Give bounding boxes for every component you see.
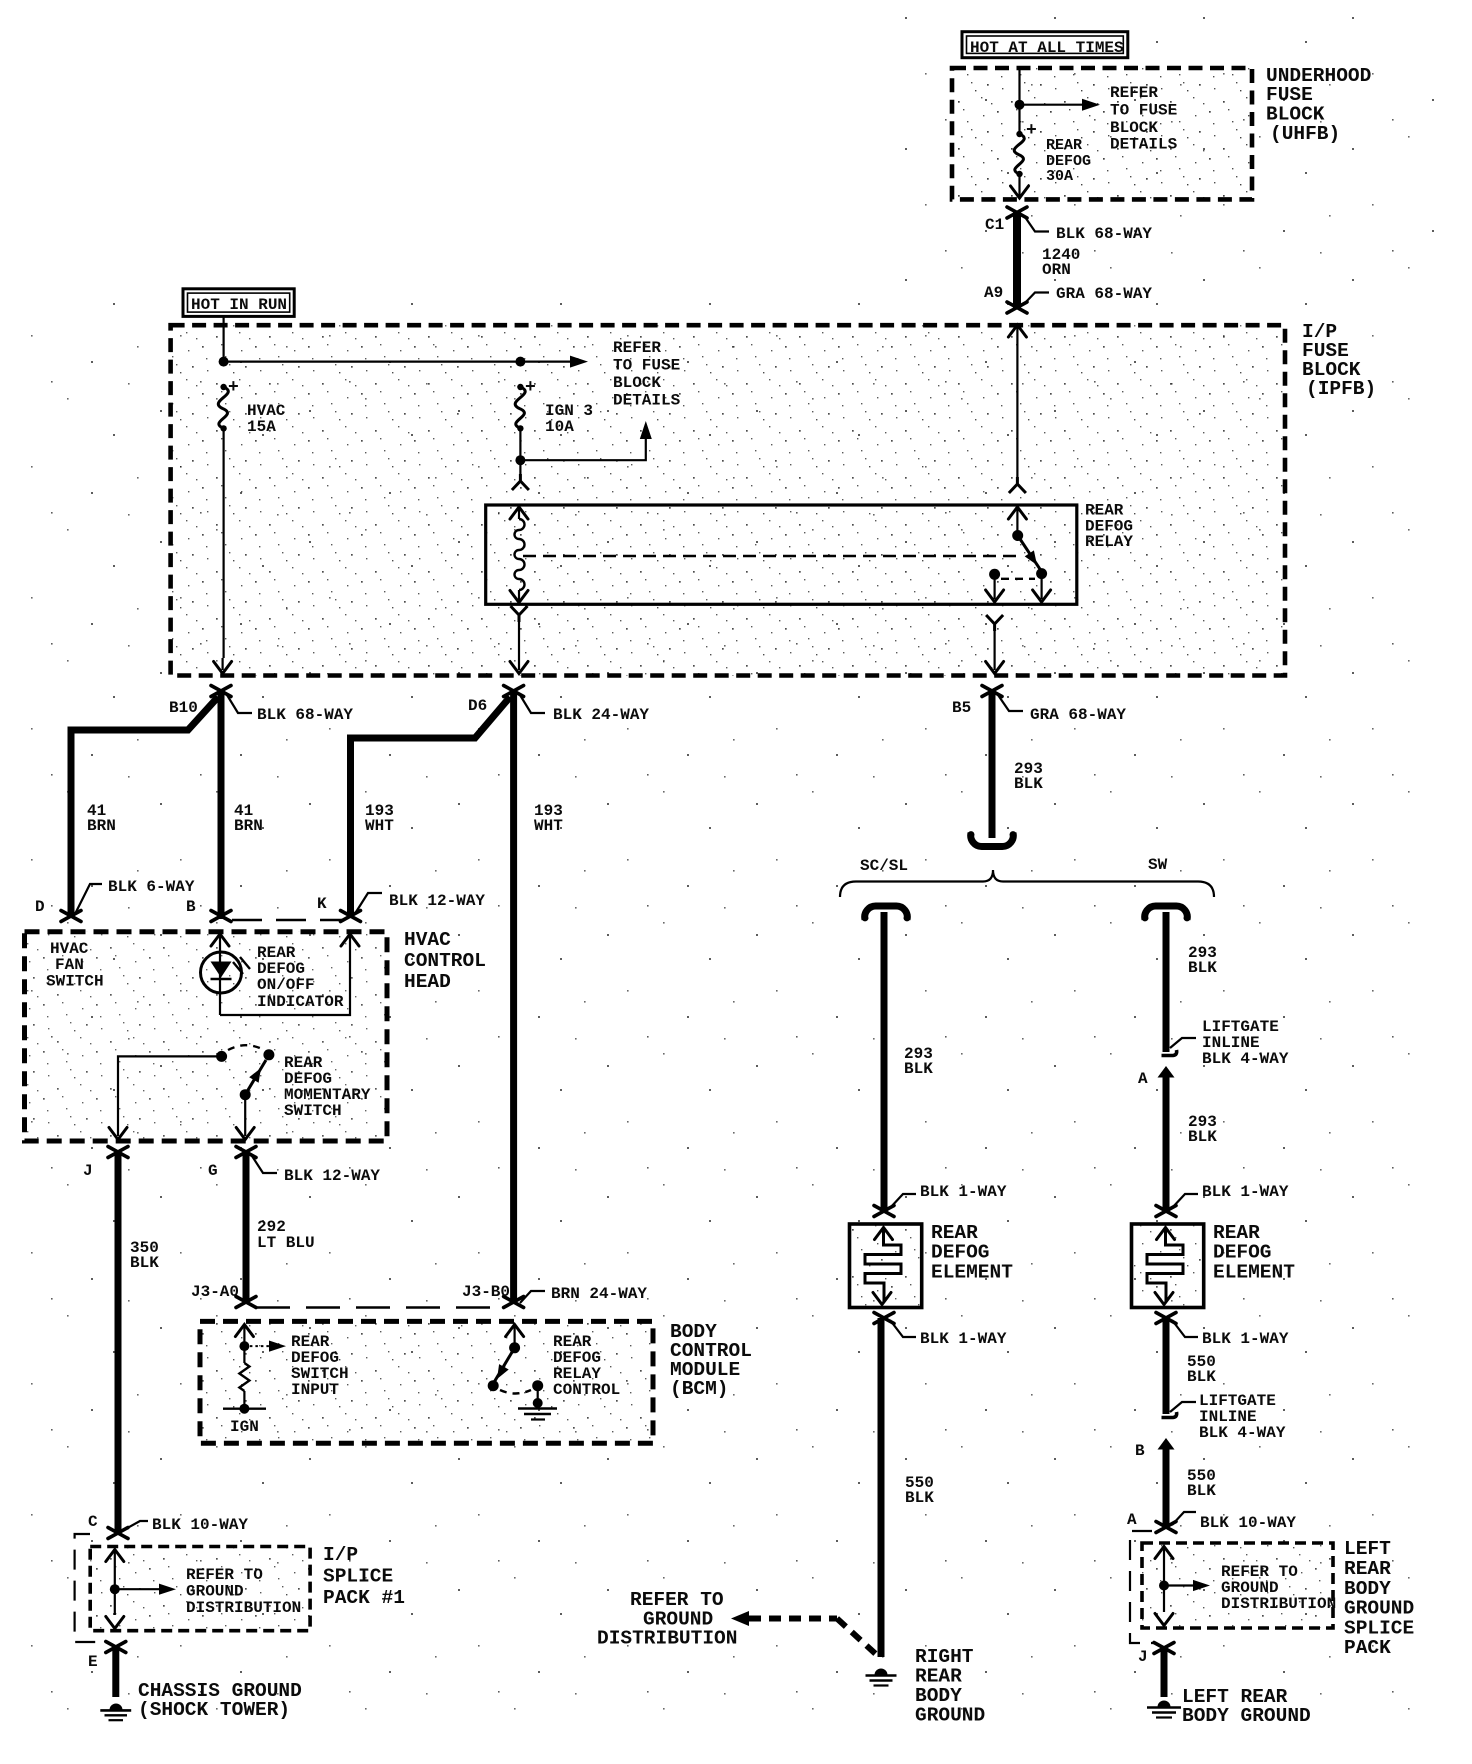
svg-text:15A: 15A <box>247 418 276 436</box>
svg-text:G: G <box>208 1162 218 1180</box>
svg-text:BLK 1-WAY: BLK 1-WAY <box>1202 1183 1289 1201</box>
svg-text:ON/OFF: ON/OFF <box>257 976 315 994</box>
svg-text:BLK 4-WAY: BLK 4-WAY <box>1199 1424 1286 1442</box>
svg-text:BLK 10-WAY: BLK 10-WAY <box>152 1516 248 1534</box>
svg-text:DISTRIBUTION: DISTRIBUTION <box>597 1628 737 1650</box>
svg-text:BRN: BRN <box>87 817 116 835</box>
svg-text:(SHOCK TOWER): (SHOCK TOWER) <box>138 1699 290 1721</box>
svg-text:GROUND: GROUND <box>915 1705 985 1727</box>
svg-text:DISTRIBUTION: DISTRIBUTION <box>186 1599 301 1617</box>
svg-text:SW: SW <box>1148 856 1168 874</box>
svg-text:WHT: WHT <box>365 817 394 835</box>
svg-text:GROUND: GROUND <box>1344 1598 1414 1620</box>
svg-text:FAN: FAN <box>55 956 84 974</box>
svg-text:BLK 10-WAY: BLK 10-WAY <box>1200 1514 1296 1532</box>
svg-text:B: B <box>1135 1442 1145 1460</box>
svg-text:LT BLU: LT BLU <box>257 1234 315 1252</box>
svg-text:E: E <box>88 1653 98 1671</box>
svg-text:B5: B5 <box>952 699 971 717</box>
svg-text:I/P: I/P <box>323 1544 358 1566</box>
svg-text:SPLICE: SPLICE <box>323 1566 393 1588</box>
svg-text:+: + <box>525 378 536 398</box>
svg-text:J: J <box>1138 1648 1148 1666</box>
svg-text:SWITCH: SWITCH <box>46 973 104 991</box>
svg-text:REAR: REAR <box>1344 1558 1391 1580</box>
svg-text:ORN: ORN <box>1042 261 1071 279</box>
svg-text:REAR: REAR <box>1046 137 1082 154</box>
svg-text:+: + <box>228 378 239 398</box>
svg-text:C1: C1 <box>985 216 1004 234</box>
svg-text:TO FUSE: TO FUSE <box>1110 102 1177 120</box>
svg-text:(IPFB): (IPFB) <box>1306 378 1376 400</box>
svg-text:BLK: BLK <box>1187 1482 1216 1500</box>
svg-text:BLK 1-WAY: BLK 1-WAY <box>920 1330 1007 1348</box>
svg-text:BLK 1-WAY: BLK 1-WAY <box>920 1183 1007 1201</box>
svg-text:WHT: WHT <box>534 817 563 835</box>
svg-text:BLK: BLK <box>1187 1368 1216 1386</box>
svg-text:INPUT: INPUT <box>291 1381 339 1399</box>
svg-text:DISTRIBUTION: DISTRIBUTION <box>1221 1595 1336 1613</box>
svg-text:BLOCK: BLOCK <box>613 374 661 392</box>
svg-text:(UHFB): (UHFB) <box>1270 123 1340 145</box>
svg-text:BLK 12-WAY: BLK 12-WAY <box>389 892 485 910</box>
svg-text:B: B <box>186 898 196 916</box>
svg-text:GRA 68-WAY: GRA 68-WAY <box>1056 285 1152 303</box>
svg-text:PACK #1: PACK #1 <box>323 1587 405 1609</box>
svg-text:(BCM): (BCM) <box>670 1378 729 1400</box>
svg-text:HOT IN RUN: HOT IN RUN <box>191 296 287 314</box>
svg-text:REFER: REFER <box>1110 84 1158 102</box>
svg-text:BLK 4-WAY: BLK 4-WAY <box>1202 1050 1289 1068</box>
svg-text:B10: B10 <box>169 699 198 717</box>
svg-text:DEFOG: DEFOG <box>931 1242 990 1264</box>
svg-text:HVAC: HVAC <box>404 929 451 951</box>
svg-text:BLK 68-WAY: BLK 68-WAY <box>1056 225 1152 243</box>
svg-text:A: A <box>1127 1511 1137 1529</box>
svg-text:C: C <box>88 1513 98 1531</box>
svg-text:REFER: REFER <box>613 339 661 357</box>
svg-text:SWITCH: SWITCH <box>284 1102 342 1120</box>
svg-text:K: K <box>317 895 327 913</box>
svg-text:TO FUSE: TO FUSE <box>613 357 680 375</box>
svg-text:30A: 30A <box>1046 168 1073 185</box>
svg-text:HEAD: HEAD <box>404 971 451 993</box>
svg-text:RELAY: RELAY <box>1085 533 1133 551</box>
svg-text:DEFOG: DEFOG <box>1213 1242 1272 1264</box>
svg-text:INDICATOR: INDICATOR <box>257 993 344 1011</box>
svg-text:BLK 6-WAY: BLK 6-WAY <box>108 878 195 896</box>
svg-text:J3-A0: J3-A0 <box>191 1283 239 1301</box>
svg-text:BLK: BLK <box>905 1489 934 1507</box>
svg-text:+: + <box>1026 121 1037 141</box>
svg-text:J: J <box>83 1162 93 1180</box>
svg-text:PACK: PACK <box>1344 1637 1391 1659</box>
svg-text:GRA 68-WAY: GRA 68-WAY <box>1030 706 1126 724</box>
svg-text:D6: D6 <box>468 697 487 715</box>
svg-text:GROUND: GROUND <box>186 1583 244 1601</box>
svg-text:LEFT: LEFT <box>1344 1538 1391 1560</box>
svg-text:BLK: BLK <box>1014 775 1043 793</box>
svg-text:ELEMENT: ELEMENT <box>1213 1262 1295 1284</box>
svg-text:10A: 10A <box>545 418 574 436</box>
svg-text:BLK: BLK <box>1188 959 1217 977</box>
svg-text:BLK 1-WAY: BLK 1-WAY <box>1202 1330 1289 1348</box>
svg-text:A9: A9 <box>984 284 1003 302</box>
svg-text:BLK 24-WAY: BLK 24-WAY <box>553 706 649 724</box>
svg-text:BLK: BLK <box>904 1060 933 1078</box>
svg-text:BRN 24-WAY: BRN 24-WAY <box>551 1285 647 1303</box>
svg-text:DETAILS: DETAILS <box>613 392 681 410</box>
svg-text:BLK: BLK <box>1188 1128 1217 1146</box>
svg-text:D: D <box>35 898 45 916</box>
svg-text:BODY GROUND: BODY GROUND <box>1182 1705 1311 1727</box>
svg-text:DETAILS: DETAILS <box>1110 136 1178 154</box>
svg-text:BLK 12-WAY: BLK 12-WAY <box>284 1167 380 1185</box>
svg-text:REFER TO: REFER TO <box>186 1566 263 1584</box>
svg-text:SC/SL: SC/SL <box>860 857 908 875</box>
svg-text:A: A <box>1138 1070 1148 1088</box>
svg-text:BLOCK: BLOCK <box>1110 119 1158 137</box>
svg-text:CONTROL: CONTROL <box>553 1381 620 1399</box>
svg-text:CONTROL: CONTROL <box>404 950 486 972</box>
svg-text:BLK: BLK <box>130 1254 159 1272</box>
svg-text:HOT AT ALL TIMES: HOT AT ALL TIMES <box>970 39 1124 57</box>
svg-text:BLK 68-WAY: BLK 68-WAY <box>257 706 353 724</box>
svg-text:IGN: IGN <box>230 1418 259 1436</box>
svg-text:BRN: BRN <box>234 817 263 835</box>
svg-text:ELEMENT: ELEMENT <box>931 1262 1013 1284</box>
svg-text:J3-B0: J3-B0 <box>462 1283 510 1301</box>
